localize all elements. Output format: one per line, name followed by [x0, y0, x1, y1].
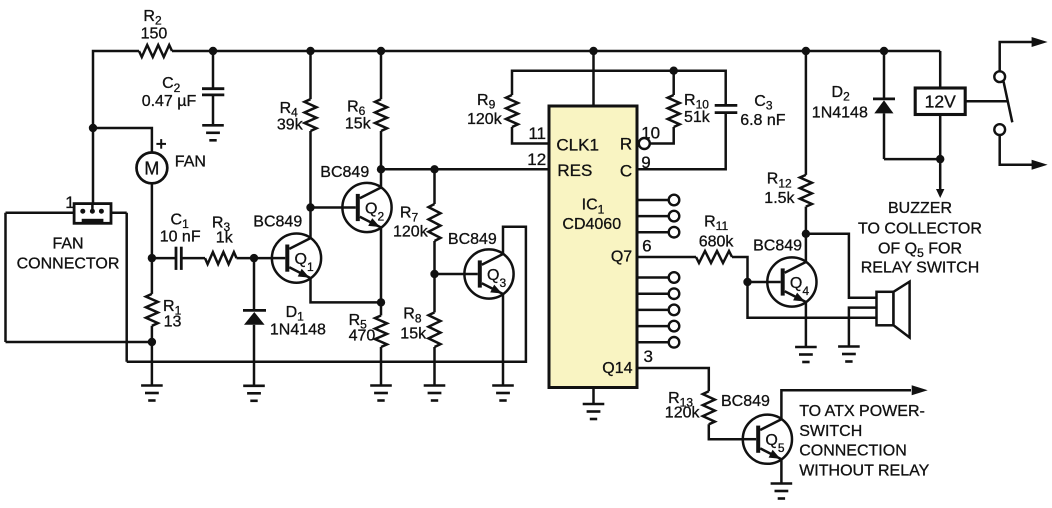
svg-text:BC849: BC849: [721, 393, 770, 410]
svg-text:RELAY SWITCH: RELAY SWITCH: [861, 259, 980, 276]
wire Q1 collector to R4 node: [309, 208, 312, 239]
wire Q2 emitter to R5 node: [380, 228, 383, 303]
wire R13 to Q5 base: [709, 424, 743, 439]
relay coil 12V: [915, 88, 965, 115]
wire top rail continues to relay: [172, 50, 940, 53]
resistor R2: [139, 45, 172, 57]
wire to fan motor: [93, 128, 152, 153]
diode D1 1N4148: [253, 258, 256, 310]
svg-text:1.5k: 1.5k: [764, 190, 795, 207]
svg-text:12: 12: [527, 150, 546, 169]
node C1 R1 junction: [148, 254, 156, 262]
node junction C2 on rail: [209, 47, 217, 55]
node R6 on rail: [377, 47, 385, 55]
svg-text:10: 10: [641, 124, 660, 143]
wire Q4 collector up to R12 node: [805, 234, 808, 262]
motor M fan: [137, 153, 168, 184]
wire C3 to IC pin 9: [637, 113, 726, 170]
svg-text:TO COLLECTOR: TO COLLECTOR: [858, 220, 982, 237]
resistor R6: [380, 51, 383, 99]
svg-text:BC849: BC849: [253, 214, 302, 231]
wire Q4 base node down to buzzer feedback: [748, 282, 877, 318]
svg-text:CONNECTION: CONNECTION: [799, 443, 907, 460]
capacitor C1: [175, 247, 178, 270]
wire Q3 collector loop to fan connector: [127, 227, 526, 362]
svg-text:120k: 120k: [467, 111, 503, 128]
node Q1 base: [250, 254, 258, 262]
resistor R9: [506, 95, 518, 127]
relay switch blade: [1004, 81, 1013, 122]
node R7 top on RES line: [430, 165, 438, 173]
node R5 top: [377, 298, 385, 306]
node Q2 collector R6: [377, 165, 385, 173]
node Q1 collector Q2 base: [306, 203, 314, 211]
wire RES line to IC pin 12: [381, 168, 549, 171]
resistor R10: [672, 71, 675, 95]
wire IC ground: [592, 388, 595, 405]
resistor R7: [433, 169, 436, 204]
relay contact bottom: [994, 124, 1005, 135]
svg-text:CONNECTOR: CONNECTOR: [17, 255, 120, 272]
svg-text:51k: 51k: [684, 109, 711, 126]
svg-text:6.8 nF: 6.8 nF: [740, 112, 786, 129]
transistor Q2 BC849: [342, 183, 391, 232]
ground below IC: [583, 403, 605, 406]
node relay bottom: [936, 155, 944, 163]
buzzer speaker symbol: [877, 292, 894, 326]
node R12 on rail: [802, 47, 810, 55]
wire motor to C1 node: [151, 183, 154, 258]
svg-text:CD4060: CD4060: [562, 216, 621, 233]
svg-text:1N4148: 1N4148: [812, 104, 868, 121]
wire Q7 pin 6 to R11: [637, 256, 696, 259]
resistor R11: [696, 251, 732, 263]
svg-text:15k: 15k: [400, 325, 427, 342]
wire Q2 collector to RES node: [380, 169, 383, 187]
svg-text:470: 470: [349, 328, 376, 345]
wire relay coil to node: [939, 115, 942, 160]
wire node to Q2 base: [311, 206, 343, 209]
svg-text:R: R: [620, 135, 632, 154]
svg-text:BC849: BC849: [448, 231, 497, 248]
wire R3 to base node: [237, 257, 255, 260]
node Q4 base: [743, 278, 751, 286]
node Q3 base R7 R8: [430, 270, 438, 278]
ground below R5: [370, 384, 392, 387]
node junction fan branch: [89, 124, 97, 132]
transistor Q5 BC849: [743, 415, 792, 464]
svg-text:FAN: FAN: [175, 154, 206, 171]
ground below Q3: [492, 384, 514, 387]
svg-text:15k: 15k: [345, 116, 372, 133]
ground below C2: [202, 124, 224, 127]
ground below D1: [243, 384, 265, 387]
ground below Q5: [771, 482, 793, 485]
wire base node to Q1: [254, 257, 272, 260]
wire R1 node to ground: [151, 342, 154, 386]
svg-text:680k: 680k: [699, 233, 735, 250]
wire R9 to IC pin 11: [512, 127, 549, 144]
resistor R3: [205, 252, 237, 264]
ground below R8: [424, 384, 446, 387]
svg-text:WITHOUT RELAY: WITHOUT RELAY: [799, 462, 929, 479]
svg-text:120k: 120k: [393, 223, 429, 240]
wire Q5 emitter to ground: [780, 459, 783, 483]
diode D2 1N4148: [883, 51, 886, 99]
relay contact top: [994, 71, 1005, 82]
wire collector node to buzzer: [806, 234, 877, 298]
svg-text:1N4148: 1N4148: [270, 321, 326, 338]
transistor Q4 BC849: [767, 257, 816, 306]
svg-text:12V: 12V: [925, 92, 956, 112]
svg-text:CLK1: CLK1: [556, 136, 599, 155]
wire Q5 collector to ATX arrow: [781, 390, 911, 419]
wire Q3 emitter to ground: [502, 294, 505, 386]
svg-text:TO ATX POWER-: TO ATX POWER-: [799, 403, 925, 420]
svg-text:120k: 120k: [665, 405, 701, 422]
svg-text:M: M: [144, 159, 159, 179]
wire base node to Q4: [748, 281, 768, 284]
wire node to Q3 base: [435, 273, 465, 276]
svg-text:SWITCH: SWITCH: [799, 423, 862, 440]
ground below buzzer: [838, 345, 860, 348]
svg-text:39k: 39k: [277, 117, 304, 134]
wire buzzer middle terminal to ground: [849, 308, 877, 347]
transistor Q3 BC849: [464, 249, 513, 298]
resistor R8: [433, 274, 436, 312]
wire top power rail: [93, 51, 139, 205]
wire rail to IC top: [592, 51, 595, 106]
inverter bubble pin 10: [639, 138, 650, 149]
ground below Q4: [795, 346, 817, 349]
capacitor C2: [202, 87, 224, 90]
IC output stub pins with circles: [637, 199, 669, 202]
svg-text:11: 11: [528, 124, 546, 143]
svg-text:0.47 µF: 0.47 µF: [142, 93, 197, 110]
svg-text:C: C: [620, 161, 632, 180]
svg-text:RES: RES: [557, 161, 592, 180]
wire Q1 emitter down: [311, 278, 382, 302]
resistor R5: [380, 302, 383, 315]
svg-text:BC849: BC849: [753, 238, 802, 255]
transistor Q1 BC849: [272, 234, 321, 283]
node D2 on rail: [880, 47, 888, 55]
wire rail into relay coil: [939, 51, 942, 88]
svg-text:BUZZER: BUZZER: [888, 200, 952, 217]
wire node to C1: [152, 257, 176, 260]
node R4 on rail: [306, 47, 314, 55]
node R10 top: [670, 67, 678, 75]
resistor R12: [805, 51, 808, 175]
wire Q4 emitter to ground: [805, 302, 808, 347]
svg-text:Q7: Q7: [611, 249, 632, 266]
svg-text:13: 13: [164, 313, 182, 330]
svg-text:150: 150: [141, 26, 168, 43]
wire D2 to relay bottom node: [884, 158, 940, 161]
node ground junction R1: [148, 338, 156, 346]
wire Q14 pin 3 to R13: [637, 368, 709, 391]
wire relay contact common: [965, 100, 1008, 103]
wire buzzer arrow: [939, 159, 942, 190]
wire R11 to Q4 base: [732, 257, 748, 282]
wire R10 to pin 10 bubble: [650, 127, 674, 144]
fan connector box: [4, 213, 7, 342]
label plus polarity: [156, 143, 166, 145]
svg-text:1k: 1k: [216, 229, 234, 246]
resistor R1: [151, 258, 154, 294]
resistor R4: [309, 51, 312, 99]
svg-text:Q14: Q14: [602, 360, 632, 377]
wire rail to C2: [212, 51, 215, 89]
capacitor C3: [715, 104, 738, 107]
wire C1 to R3: [181, 257, 205, 260]
wire bottom contact to arrow: [1000, 135, 1032, 165]
svg-text:6: 6: [642, 237, 651, 256]
fan connector symbol: [74, 204, 111, 224]
ground below R1: [141, 384, 163, 387]
wire oscillator top R9 to C3: [512, 71, 726, 106]
wire top contact to arrow: [1000, 42, 1032, 71]
node IC supply on rail: [589, 47, 597, 55]
svg-text:9: 9: [641, 153, 650, 172]
svg-text:FAN: FAN: [52, 236, 83, 253]
svg-text:10 nF: 10 nF: [160, 228, 201, 245]
svg-text:BC849: BC849: [320, 164, 369, 181]
resistor R13: [703, 391, 715, 424]
svg-text:3: 3: [644, 347, 653, 366]
op IC1 CD4060 body: [549, 106, 637, 388]
node Q4 collector R12: [802, 230, 810, 238]
wire C2 to ground: [212, 95, 215, 125]
